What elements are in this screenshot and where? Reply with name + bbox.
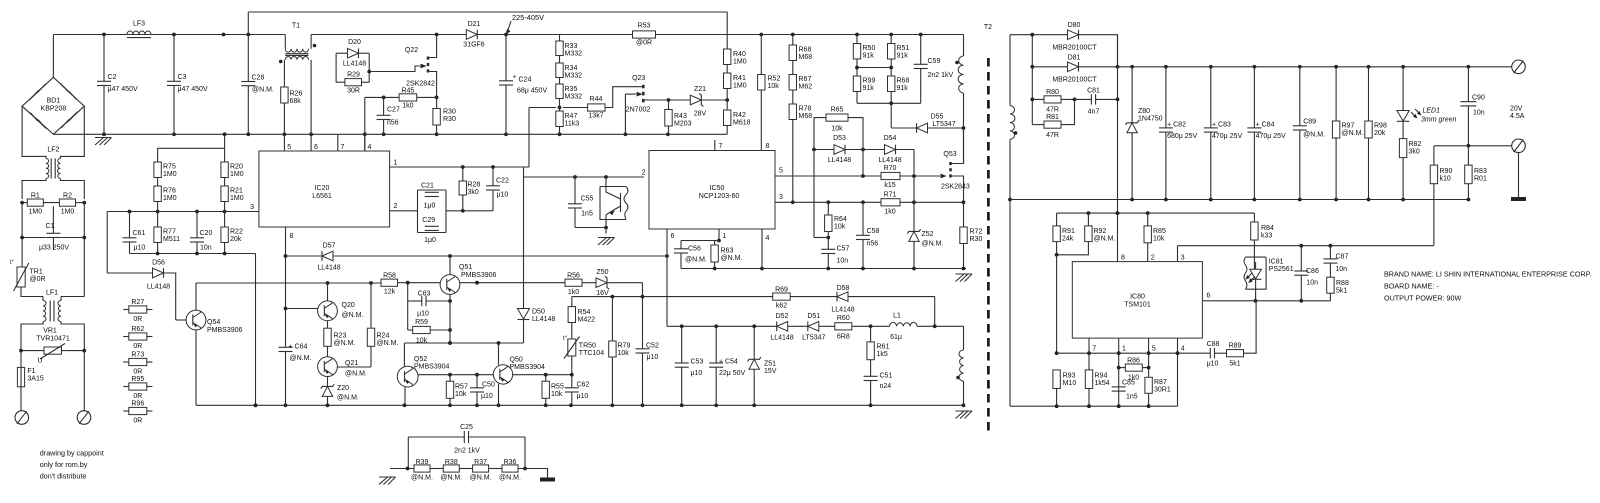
svg-text:Q21: Q21 — [345, 360, 358, 367]
svg-text:R56: R56 — [567, 273, 580, 280]
svg-text:Q20: Q20 — [342, 302, 355, 309]
svg-text:22μ 50V: 22μ 50V — [719, 370, 746, 377]
svg-text:47R: 47R — [1046, 132, 1059, 139]
svg-text:1M0: 1M0 — [733, 83, 747, 90]
svg-text:R1: R1 — [31, 193, 40, 200]
svg-text:C3: C3 — [178, 74, 187, 81]
svg-text:R54: R54 — [578, 309, 591, 316]
svg-text:R71: R71 — [884, 192, 897, 199]
svg-text:1n5: 1n5 — [1126, 394, 1138, 401]
svg-text:R33: R33 — [565, 43, 578, 50]
svg-text:R77: R77 — [163, 229, 176, 236]
svg-text:LL4148: LL4148 — [770, 335, 793, 342]
svg-text:12k: 12k — [384, 289, 396, 296]
svg-text:t°: t° — [10, 260, 15, 266]
svg-text:D56: D56 — [152, 260, 165, 267]
svg-text:R20: R20 — [230, 164, 243, 171]
svg-text:@N.M.: @N.M. — [1094, 236, 1116, 243]
svg-text:n24: n24 — [880, 383, 892, 390]
svg-text:@N.M.: @N.M. — [499, 475, 521, 482]
svg-text:MBR20100CT: MBR20100CT — [1052, 45, 1097, 52]
svg-text:F1: F1 — [27, 368, 35, 375]
svg-text:PMBS3904: PMBS3904 — [414, 364, 450, 371]
svg-text:M511: M511 — [163, 236, 180, 243]
svg-text:R2: R2 — [63, 193, 72, 200]
svg-text:C61: C61 — [133, 230, 146, 237]
svg-text:7: 7 — [341, 144, 345, 151]
svg-text:R92: R92 — [1094, 228, 1107, 235]
svg-text:C28: C28 — [252, 75, 265, 82]
svg-text:30R1: 30R1 — [1154, 387, 1171, 394]
svg-text:C90: C90 — [1472, 95, 1485, 102]
svg-text:1M0: 1M0 — [163, 171, 177, 178]
svg-text:C89: C89 — [1303, 119, 1316, 126]
svg-text:R50: R50 — [863, 45, 876, 52]
svg-text:R80: R80 — [1046, 89, 1059, 96]
svg-text:0R: 0R — [133, 369, 142, 376]
svg-text:LF1: LF1 — [46, 290, 58, 297]
svg-text:TSM101: TSM101 — [1124, 301, 1151, 308]
svg-text:Z20: Z20 — [337, 385, 349, 392]
svg-text:R79: R79 — [618, 343, 631, 350]
svg-text:6R8: 6R8 — [837, 334, 850, 341]
svg-text:drawing by cappoint: drawing by cappoint — [40, 449, 104, 458]
svg-text:R95: R95 — [131, 376, 144, 383]
svg-text:C2: C2 — [108, 74, 117, 81]
svg-text:R34: R34 — [565, 65, 578, 72]
svg-text:C57: C57 — [837, 246, 850, 253]
svg-text:LL4148: LL4148 — [147, 284, 170, 291]
svg-text:n56: n56 — [387, 120, 399, 127]
svg-text:μ10: μ10 — [417, 311, 429, 318]
svg-text:R93: R93 — [1063, 373, 1076, 380]
svg-text:k33: k33 — [1261, 233, 1272, 240]
svg-text:R76: R76 — [163, 188, 176, 195]
svg-text:1k0: 1k0 — [884, 209, 895, 216]
svg-text:R36: R36 — [504, 459, 517, 466]
svg-text:4: 4 — [1181, 346, 1185, 353]
svg-text:T1: T1 — [292, 23, 300, 30]
svg-text:LED1: LED1 — [1423, 108, 1441, 115]
svg-text:C63: C63 — [418, 291, 431, 298]
svg-text:7: 7 — [719, 143, 723, 150]
svg-text:IC81: IC81 — [1269, 259, 1284, 266]
svg-text:10n: 10n — [200, 245, 212, 252]
svg-text:R47: R47 — [565, 113, 578, 120]
svg-text:Z52: Z52 — [922, 231, 934, 238]
svg-text:@N.M.: @N.M. — [252, 87, 274, 94]
svg-text:@N.M.: @N.M. — [334, 340, 356, 347]
svg-text:C50: C50 — [482, 382, 495, 389]
svg-text:10n: 10n — [1473, 110, 1485, 117]
svg-text:R84: R84 — [1261, 225, 1274, 232]
svg-text:30R: 30R — [347, 88, 360, 95]
svg-text:k62: k62 — [776, 303, 787, 310]
svg-text:@N.M.: @N.M. — [337, 395, 359, 402]
svg-text:7: 7 — [1092, 346, 1096, 353]
svg-text:5: 5 — [779, 168, 783, 175]
svg-text:R37: R37 — [474, 459, 487, 466]
svg-text:C53: C53 — [691, 359, 704, 366]
svg-text:2: 2 — [1151, 255, 1155, 262]
svg-text:M68: M68 — [799, 54, 813, 61]
svg-text:2n2 1kV: 2n2 1kV — [454, 448, 480, 455]
svg-text:@N.M.: @N.M. — [342, 312, 364, 319]
svg-text:3: 3 — [250, 204, 254, 211]
svg-text:Z51: Z51 — [764, 361, 776, 368]
svg-text:C22: C22 — [496, 178, 509, 185]
svg-text:t°: t° — [563, 336, 568, 342]
svg-text:31GF6: 31GF6 — [463, 42, 485, 49]
svg-text:+ C83: + C83 — [1212, 121, 1231, 128]
svg-text:47R: 47R — [1046, 107, 1059, 114]
svg-text:C85: C85 — [1122, 380, 1135, 387]
svg-text:D81: D81 — [1068, 55, 1081, 62]
svg-text:k10: k10 — [1440, 176, 1451, 183]
svg-text:C27: C27 — [387, 107, 400, 114]
svg-text:+ C82: + C82 — [1167, 121, 1186, 128]
svg-text:@N.M.: @N.M. — [1342, 130, 1364, 137]
svg-text:R78: R78 — [799, 106, 812, 113]
svg-text:R22: R22 — [230, 229, 243, 236]
svg-text:6: 6 — [314, 144, 318, 151]
svg-text:4: 4 — [766, 235, 770, 242]
svg-text:LT5347: LT5347 — [802, 335, 825, 342]
svg-text:BD1: BD1 — [47, 98, 61, 105]
svg-text:μ47 450V: μ47 450V — [178, 86, 208, 93]
svg-text:T2: T2 — [984, 24, 992, 31]
svg-text:μ47 450V: μ47 450V — [108, 86, 138, 93]
svg-text:TVR10471: TVR10471 — [36, 336, 70, 343]
svg-text:C29: C29 — [422, 217, 435, 224]
svg-text:μ10: μ10 — [577, 393, 589, 400]
svg-text:R61: R61 — [877, 344, 890, 351]
svg-text:8: 8 — [766, 143, 770, 150]
svg-text:10k: 10k — [1153, 236, 1165, 243]
svg-text:2N7002: 2N7002 — [626, 107, 651, 114]
svg-text:R41: R41 — [733, 75, 746, 82]
svg-text:3: 3 — [779, 194, 783, 201]
svg-text:2SK2842: 2SK2842 — [406, 81, 435, 88]
svg-text:1N4750: 1N4750 — [1138, 116, 1163, 123]
svg-text:10k: 10k — [618, 350, 630, 357]
svg-text:PMBS3904: PMBS3904 — [510, 364, 546, 371]
svg-text:20k: 20k — [1374, 130, 1386, 137]
svg-text:R85: R85 — [1153, 228, 1166, 235]
svg-text:R55: R55 — [551, 384, 564, 391]
svg-text:R45: R45 — [401, 88, 414, 95]
svg-text:C52: C52 — [646, 343, 659, 350]
svg-text:μ33 250V: μ33 250V — [39, 245, 69, 252]
svg-text:R30: R30 — [970, 236, 983, 243]
svg-text:C56: C56 — [688, 246, 701, 253]
svg-text:8: 8 — [1121, 255, 1125, 262]
svg-text:R97: R97 — [1342, 123, 1355, 130]
svg-text:PMBS3906: PMBS3906 — [207, 327, 243, 334]
svg-text:IC50: IC50 — [710, 185, 725, 192]
svg-text:R81: R81 — [1046, 114, 1059, 121]
svg-text:1μ0: 1μ0 — [424, 237, 436, 244]
svg-text:8: 8 — [290, 233, 294, 240]
svg-text:1M0: 1M0 — [163, 195, 177, 202]
svg-text:R89: R89 — [1229, 343, 1242, 350]
svg-text:R40: R40 — [733, 51, 746, 58]
svg-text:R21: R21 — [230, 188, 243, 195]
svg-text:BOARD NAME: -: BOARD NAME: - — [1384, 282, 1439, 291]
svg-text:R90: R90 — [1440, 168, 1453, 175]
svg-text:D52: D52 — [776, 313, 789, 320]
svg-text:M618: M618 — [733, 120, 751, 127]
svg-text:Z21: Z21 — [694, 86, 706, 93]
svg-text:6: 6 — [1207, 293, 1211, 300]
svg-text:D55: D55 — [931, 114, 944, 121]
svg-text:5: 5 — [287, 144, 291, 151]
svg-text:24k: 24k — [1062, 236, 1074, 243]
svg-text:470μ 25V: 470μ 25V — [1256, 133, 1286, 140]
svg-text:R23: R23 — [334, 333, 347, 340]
svg-text:R70: R70 — [884, 165, 897, 172]
svg-text:D58: D58 — [837, 285, 850, 292]
svg-text:R67: R67 — [799, 76, 812, 83]
svg-text:C62: C62 — [577, 382, 590, 389]
svg-text:2n2 1kV: 2n2 1kV — [928, 72, 954, 79]
svg-text:LL4148: LL4148 — [317, 265, 340, 272]
svg-text:@N.M.: @N.M. — [345, 371, 367, 378]
svg-text:D54: D54 — [884, 135, 897, 142]
svg-text:D57: D57 — [323, 243, 336, 250]
svg-text:R83: R83 — [1474, 168, 1487, 175]
svg-text:C25: C25 — [460, 424, 473, 431]
svg-text:LL4148: LL4148 — [878, 157, 901, 164]
svg-text:3A15: 3A15 — [27, 376, 43, 383]
svg-text:28V: 28V — [694, 111, 707, 118]
svg-text:@N.M.: @N.M. — [1303, 132, 1325, 139]
svg-text:2: 2 — [642, 170, 646, 177]
svg-text:D21: D21 — [468, 21, 481, 28]
svg-text:0R: 0R — [133, 393, 142, 400]
svg-text:15V: 15V — [764, 368, 777, 375]
svg-text:91k: 91k — [897, 53, 909, 60]
svg-text:R68: R68 — [897, 78, 910, 85]
svg-text:LL4148: LL4148 — [831, 307, 854, 314]
svg-text:16V: 16V — [596, 290, 609, 297]
svg-text:10n: 10n — [837, 258, 849, 265]
svg-text:Q51: Q51 — [459, 264, 472, 271]
svg-text:1M0: 1M0 — [28, 209, 42, 216]
svg-text:Q23: Q23 — [632, 75, 645, 82]
svg-text:@N.M.: @N.M. — [685, 257, 707, 264]
svg-text:D53: D53 — [833, 135, 846, 142]
svg-text:5k1: 5k1 — [1336, 288, 1347, 295]
svg-text:R29: R29 — [347, 72, 360, 79]
svg-text:LF2: LF2 — [47, 147, 59, 154]
svg-text:TR1: TR1 — [30, 269, 43, 276]
svg-text:C24: C24 — [519, 77, 532, 84]
svg-text:+: + — [513, 74, 517, 81]
svg-text:R30: R30 — [443, 109, 456, 116]
svg-text:M203: M203 — [674, 121, 692, 128]
svg-text:20k: 20k — [230, 236, 242, 243]
svg-text:1k0: 1k0 — [402, 103, 413, 110]
svg-text:4: 4 — [368, 144, 372, 151]
svg-text:C87: C87 — [1336, 254, 1349, 261]
svg-text:LT5347: LT5347 — [932, 121, 955, 128]
svg-text:@N.M.: @N.M. — [922, 241, 944, 248]
svg-text:R57: R57 — [455, 384, 468, 391]
svg-text:R62: R62 — [131, 326, 144, 333]
svg-text:10k: 10k — [551, 391, 563, 398]
svg-text:10n: 10n — [1335, 266, 1347, 273]
svg-text:4n7: 4n7 — [1088, 109, 1100, 116]
svg-text:μ10: μ10 — [691, 370, 703, 377]
svg-text:R64: R64 — [834, 216, 847, 223]
svg-text:μ10: μ10 — [497, 192, 509, 199]
svg-text:R63: R63 — [721, 248, 734, 255]
svg-text:D20: D20 — [348, 39, 361, 46]
svg-text:+ C54: + C54 — [719, 359, 738, 366]
svg-text:3k0: 3k0 — [1409, 149, 1420, 156]
svg-text:1M0: 1M0 — [61, 209, 75, 216]
svg-text:20V: 20V — [1510, 106, 1523, 113]
svg-text:@0R: @0R — [636, 40, 652, 47]
svg-text:11k3: 11k3 — [565, 121, 580, 128]
svg-text:LL4148: LL4148 — [343, 61, 366, 68]
svg-text:R99: R99 — [863, 78, 876, 85]
svg-text:0R: 0R — [133, 316, 142, 323]
svg-text:10k: 10k — [455, 391, 467, 398]
svg-text:91k: 91k — [863, 53, 875, 60]
svg-text:1: 1 — [723, 233, 727, 240]
svg-text:3mm green: 3mm green — [1421, 117, 1457, 124]
svg-text:C20: C20 — [200, 230, 213, 237]
svg-text:R26: R26 — [290, 91, 303, 98]
svg-text:R35: R35 — [565, 86, 578, 93]
svg-text:C1: C1 — [46, 223, 55, 230]
svg-text:0R: 0R — [133, 418, 142, 425]
svg-text:1k5: 1k5 — [877, 351, 888, 358]
svg-text:R94: R94 — [1095, 373, 1108, 380]
svg-text:R44: R44 — [590, 96, 603, 103]
svg-text:C55: C55 — [581, 196, 594, 203]
svg-text:Z50: Z50 — [596, 269, 608, 276]
svg-text:M68: M68 — [799, 113, 813, 120]
svg-text:+ C84: + C84 — [1256, 121, 1275, 128]
svg-text:R58: R58 — [383, 273, 396, 280]
svg-text:R86: R86 — [1127, 358, 1140, 365]
svg-text:68μ 450V: 68μ 450V — [517, 88, 547, 95]
svg-text:R24: R24 — [377, 333, 390, 340]
svg-text:PS2561: PS2561 — [1269, 266, 1294, 273]
svg-text:91k: 91k — [863, 85, 875, 92]
svg-text:R01: R01 — [1474, 176, 1487, 183]
svg-text:470μ 25V: 470μ 25V — [1212, 133, 1242, 140]
svg-text:R27: R27 — [131, 299, 144, 306]
svg-text:k15: k15 — [884, 182, 895, 189]
svg-text:U: U — [37, 358, 42, 365]
svg-text:R28: R28 — [468, 182, 481, 189]
svg-text:1: 1 — [394, 160, 398, 167]
svg-text:C86: C86 — [1306, 268, 1319, 275]
svg-text:TR50: TR50 — [579, 343, 596, 350]
svg-text:μ10: μ10 — [481, 393, 493, 400]
svg-text:1n5: 1n5 — [581, 211, 593, 218]
svg-text:C58: C58 — [867, 228, 880, 235]
svg-text:68k: 68k — [290, 98, 302, 105]
svg-text:μ10: μ10 — [134, 245, 146, 252]
svg-text:1k0: 1k0 — [568, 289, 579, 296]
svg-text:μ10: μ10 — [1207, 361, 1219, 368]
svg-text:VR1: VR1 — [43, 328, 57, 335]
svg-text:R88: R88 — [1336, 280, 1349, 287]
svg-text:D80: D80 — [1068, 22, 1081, 29]
svg-text:10k: 10k — [834, 224, 846, 231]
svg-text:@N.M.: @N.M. — [721, 255, 743, 262]
svg-text:2: 2 — [394, 203, 398, 210]
svg-text:@N.M.: @N.M. — [290, 355, 312, 362]
svg-text:D51: D51 — [807, 313, 820, 320]
svg-text:C88: C88 — [1207, 341, 1220, 348]
svg-text:μ10: μ10 — [647, 354, 659, 361]
svg-text:R59: R59 — [415, 319, 428, 326]
svg-text:TTC104: TTC104 — [579, 350, 604, 357]
svg-text:10n: 10n — [1306, 280, 1318, 287]
svg-text:R73: R73 — [131, 352, 144, 359]
svg-text:n56: n56 — [867, 241, 879, 248]
svg-text:R30: R30 — [443, 116, 456, 123]
svg-text:R43: R43 — [674, 113, 687, 120]
svg-text:5: 5 — [1152, 346, 1156, 353]
svg-text:Q54: Q54 — [207, 319, 220, 326]
svg-text:91k: 91k — [897, 85, 909, 92]
svg-text:13k7: 13k7 — [588, 113, 603, 120]
svg-text:Q53: Q53 — [943, 151, 956, 158]
svg-text:R87: R87 — [1154, 379, 1167, 386]
svg-text:R52: R52 — [768, 76, 781, 83]
svg-text:1μ0: 1μ0 — [424, 203, 436, 210]
svg-text:@N.M.: @N.M. — [470, 475, 492, 482]
svg-text:@0R: @0R — [30, 276, 46, 283]
svg-text:R51: R51 — [897, 45, 910, 52]
svg-text:3: 3 — [1181, 255, 1185, 262]
svg-text:R96: R96 — [131, 401, 144, 408]
svg-text:D50: D50 — [532, 309, 545, 316]
svg-text:M62: M62 — [799, 84, 813, 91]
svg-text:1M0: 1M0 — [733, 59, 747, 66]
svg-text:C51: C51 — [880, 373, 893, 380]
svg-text:M332: M332 — [565, 73, 583, 80]
svg-text:C59: C59 — [928, 58, 941, 65]
svg-text:225-405V: 225-405V — [512, 13, 544, 22]
svg-text:1M0: 1M0 — [230, 195, 244, 202]
svg-text:R69: R69 — [775, 287, 788, 294]
svg-text:R91: R91 — [1062, 228, 1075, 235]
svg-text:R72: R72 — [970, 229, 983, 236]
svg-text:C81: C81 — [1087, 88, 1100, 95]
svg-text:Q52: Q52 — [414, 356, 427, 363]
svg-text:R60: R60 — [837, 315, 850, 322]
svg-text:10k: 10k — [768, 83, 780, 90]
svg-text:NCP1203-60: NCP1203-60 — [699, 193, 740, 200]
svg-text:L1: L1 — [893, 313, 901, 320]
svg-text:0R: 0R — [133, 343, 142, 350]
svg-text:R65: R65 — [831, 107, 844, 114]
svg-text:M332: M332 — [565, 51, 583, 58]
svg-text:L6561: L6561 — [312, 193, 332, 200]
svg-text:LL4148: LL4148 — [828, 157, 851, 164]
svg-text:R75: R75 — [163, 164, 176, 171]
svg-text:10k: 10k — [831, 126, 843, 133]
svg-text:6: 6 — [671, 233, 675, 240]
